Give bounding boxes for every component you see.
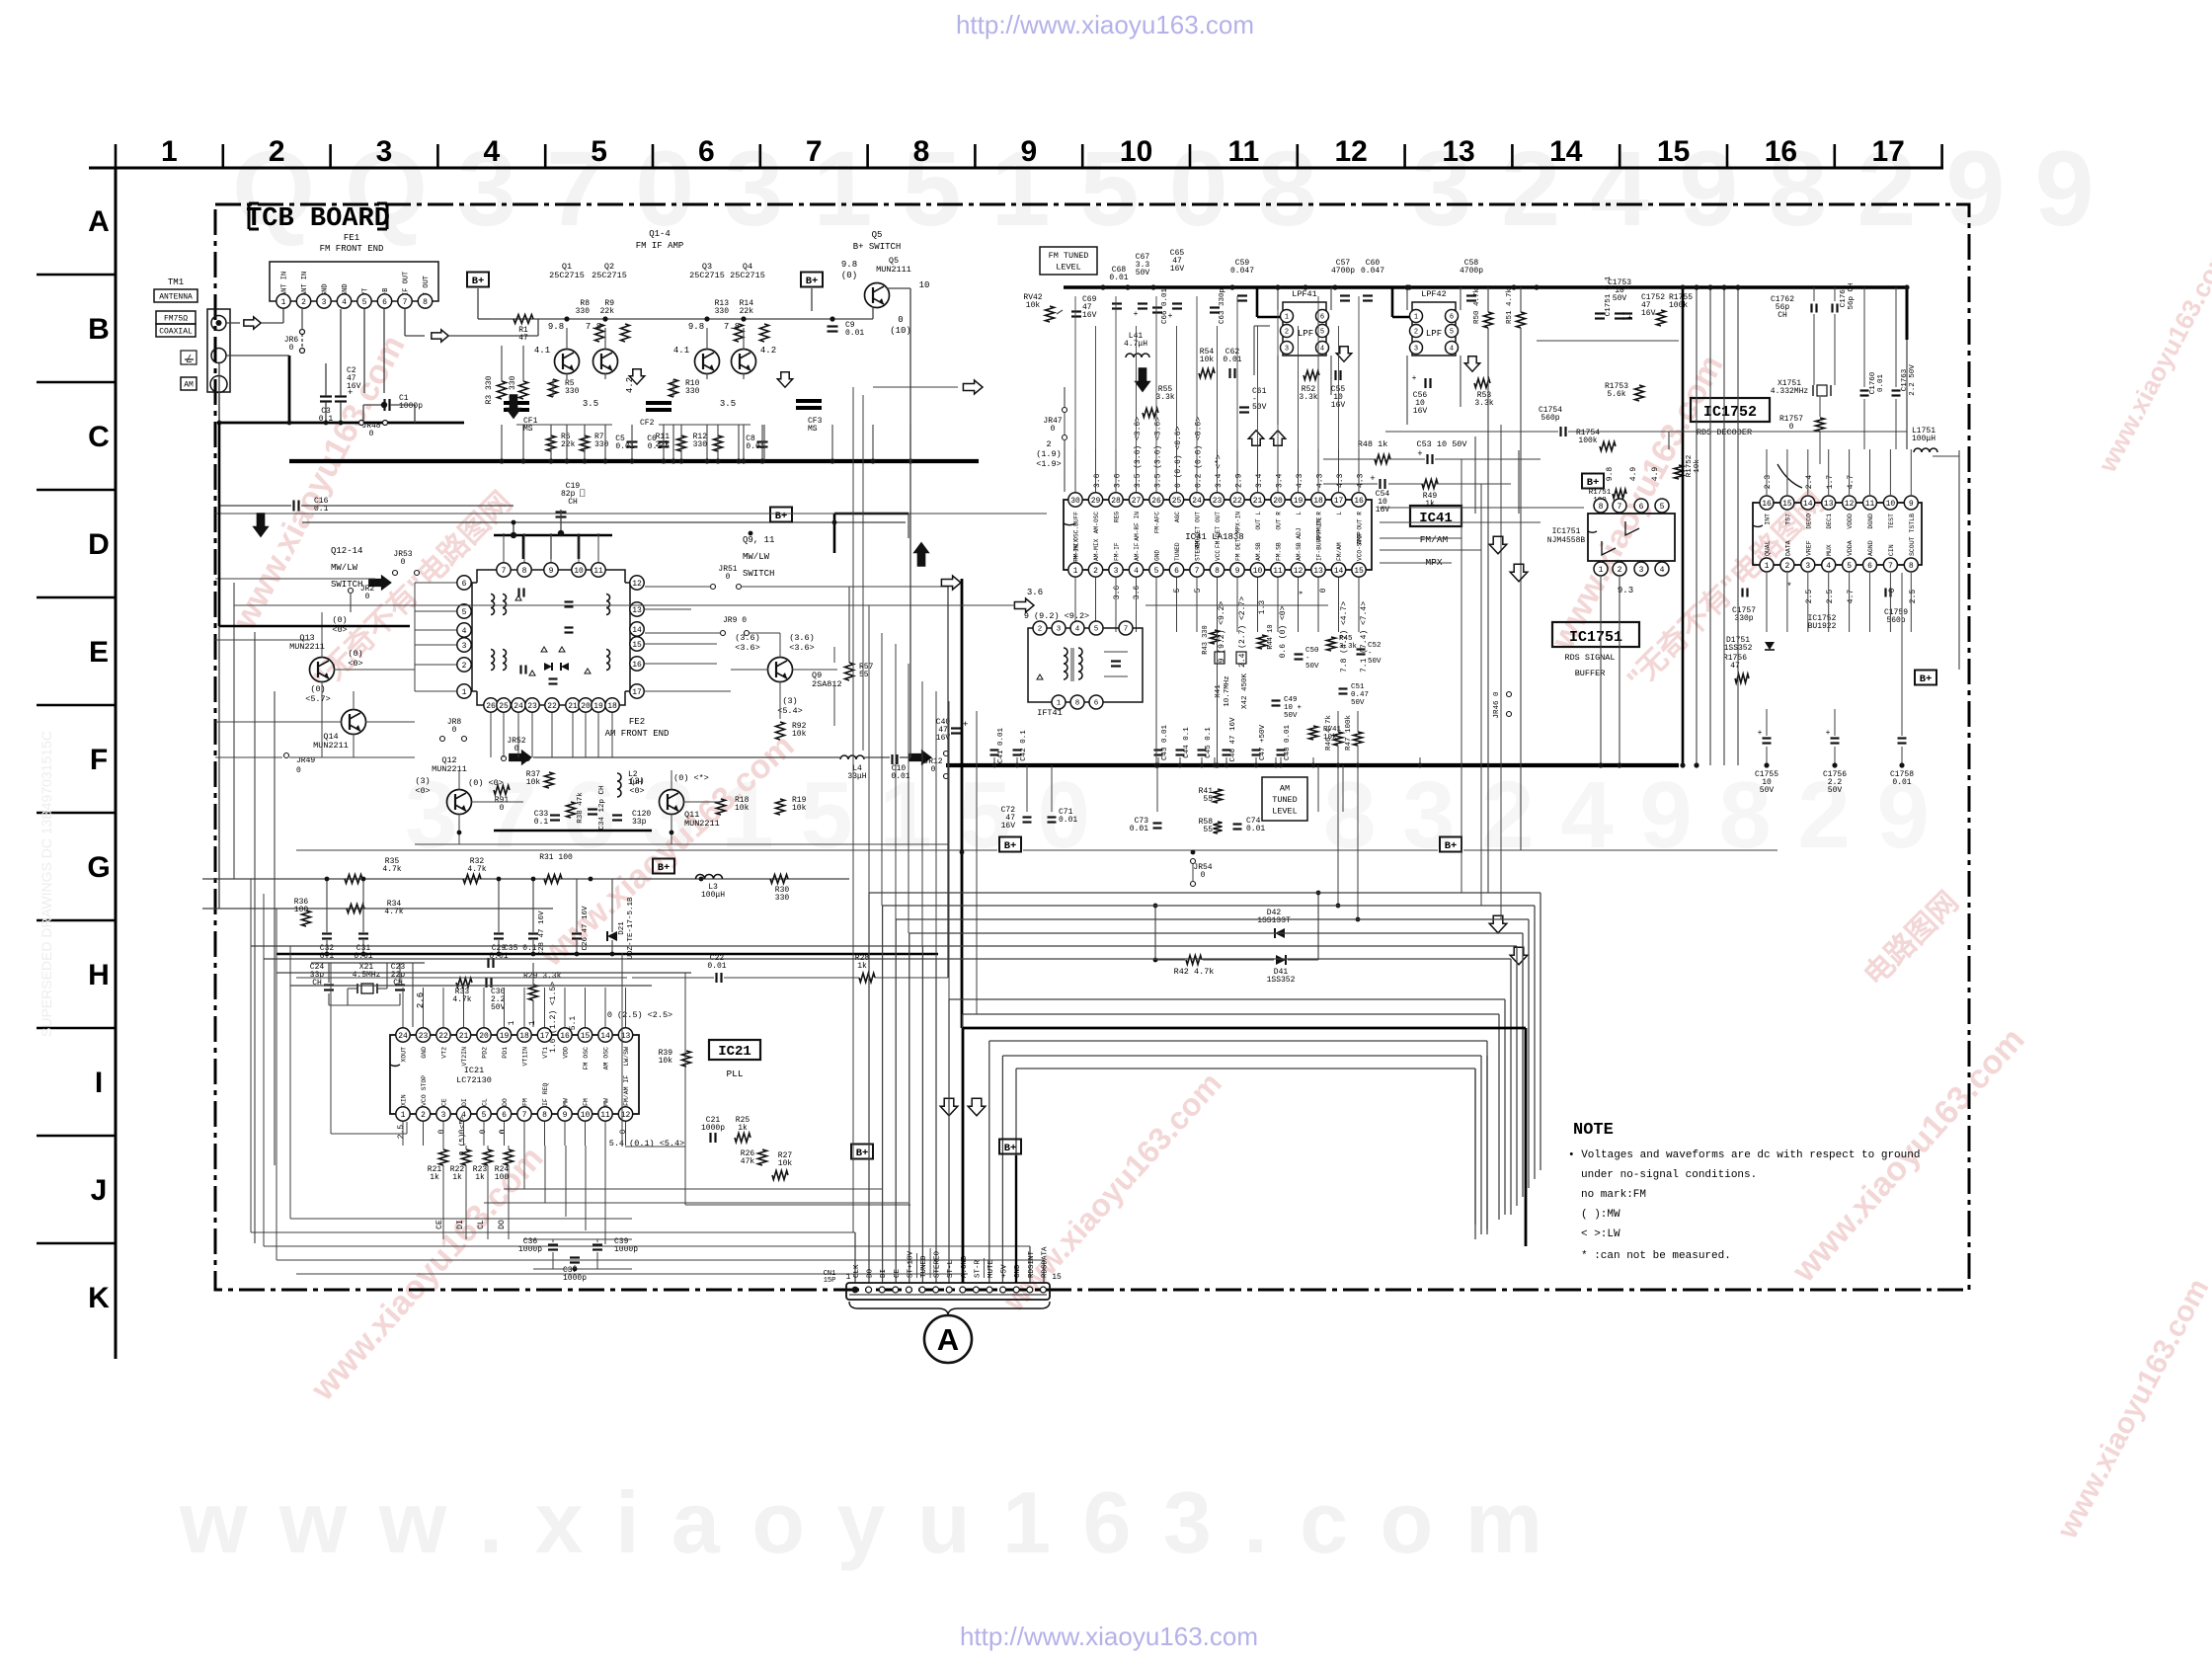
FE2 pin stubs bottom <box>490 713 492 757</box>
svg-text:R47 100k: R47 100k <box>1345 715 1353 752</box>
IC41 pin 8 <box>1210 563 1224 577</box>
svg-text:SWITCH: SWITCH <box>743 569 774 579</box>
svg-text:CH: CH <box>312 979 322 988</box>
svg-text:COAXIAL: COAXIAL <box>159 327 193 336</box>
svg-text:1: 1 <box>508 1020 516 1025</box>
svg-text:3.5: 3.5 <box>720 399 736 409</box>
ruler row tick <box>37 1242 116 1245</box>
capacitor C55 10 16V <box>1334 370 1336 380</box>
svg-text:FM: FM <box>522 1098 529 1106</box>
resistor R10 330 <box>670 379 678 397</box>
svg-text:8: 8 <box>1075 700 1080 708</box>
transistor Q12 <box>447 790 472 815</box>
svg-text:VDD: VDD <box>563 1047 570 1059</box>
capacitor C16 0.1 <box>292 501 294 512</box>
wire vertical 874 <box>862 395 864 751</box>
svg-text:AM FRONT END: AM FRONT END <box>605 729 670 739</box>
svg-text:2: 2 <box>462 662 467 671</box>
IC41 body <box>1064 500 1372 570</box>
antenna connector pin mid <box>211 349 226 363</box>
svg-text:MUN2211: MUN2211 <box>289 642 325 652</box>
svg-text:MS: MS <box>808 425 818 434</box>
svg-text:TCB BOARD: TCB BOARD <box>246 204 390 234</box>
svg-text:5: 5 <box>1320 329 1324 337</box>
svg-text:FM FRONT END: FM FRONT END <box>320 244 384 254</box>
svg-text:1.7: 1.7 <box>1826 475 1835 490</box>
svg-text:VCC: VCC <box>1215 550 1222 561</box>
svg-text:<5.7>: <5.7> <box>305 694 331 704</box>
svg-text:4.7k: 4.7k <box>452 995 471 1004</box>
IC41 pin 1 <box>1068 563 1082 577</box>
wire C19 bus <box>494 534 612 537</box>
open right arrow to IC41 pin1 area <box>1014 598 1034 612</box>
ruler left line <box>115 168 118 1359</box>
svg-text:7: 7 <box>1618 503 1622 512</box>
svg-text:20: 20 <box>581 702 591 711</box>
filled up arrow col8 row D <box>913 543 928 567</box>
svg-text:VCO-STOP: VCO-STOP <box>1357 531 1364 561</box>
svg-text:(3.6): (3.6) <box>789 633 815 643</box>
svg-text:9: 9 <box>1020 135 1037 168</box>
capacitor C21 1000p <box>709 1133 711 1143</box>
svg-text:4: 4 <box>462 627 467 636</box>
inductor L3 100uH <box>696 875 723 879</box>
svg-text:C: C <box>88 421 110 453</box>
IC1752 pointer curve <box>1777 464 1802 488</box>
B+ box RDS right <box>1915 671 1936 685</box>
wire AM out <box>533 756 841 758</box>
resistor R41 55 <box>1214 789 1223 803</box>
svg-text:13: 13 <box>1824 500 1834 509</box>
IC41 pin 5 <box>1149 563 1163 577</box>
wire row E long <box>215 639 310 641</box>
svg-text:AM-RF IN: AM-RF IN <box>1134 512 1141 541</box>
svg-text:Q1-4: Q1-4 <box>649 229 671 239</box>
svg-text:(0): (0) <box>841 271 857 280</box>
svg-text:JR46 0: JR46 0 <box>1493 691 1501 719</box>
svg-text:2.4: 2.4 <box>1805 475 1814 490</box>
svg-text:w w w . x i a o y u 1 6 3 . c: w w w . x i a o y u 1 6 3 . c o m <box>179 1473 1546 1571</box>
svg-text:FM-DET OUT: FM-DET OUT <box>1215 512 1222 548</box>
svg-text:1μH: 1μH <box>628 778 643 787</box>
svg-text:<1.9>: <1.9> <box>1036 459 1062 469</box>
wire rows B right verticals to IC1752 <box>1813 287 1815 301</box>
IC1752 pin 4 <box>1822 558 1836 572</box>
svg-text:ANT IN: ANT IN <box>301 272 309 296</box>
svg-text:IFT41: IFT41 <box>1037 708 1063 718</box>
svg-text:16: 16 <box>560 1032 570 1041</box>
svg-text:C43 0.01: C43 0.01 <box>1161 725 1169 761</box>
capacitor C24 33p CH <box>324 984 334 986</box>
svg-text:22: 22 <box>1232 497 1242 506</box>
svg-text:0.01: 0.01 <box>891 772 909 781</box>
resistor R92 10k <box>776 722 785 740</box>
svg-text:50V: 50V <box>1136 269 1150 277</box>
svg-text:4.332MHz: 4.332MHz <box>1771 387 1809 396</box>
svg-text:560p: 560p <box>1540 414 1559 423</box>
svg-text:FM/AM: FM/AM <box>1336 542 1343 561</box>
svg-text:DO: DO <box>502 1098 509 1106</box>
svg-text:5: 5 <box>462 608 467 617</box>
svg-text:B+: B+ <box>806 276 819 287</box>
resistor R13 330 R14 22k <box>735 324 744 342</box>
svg-text:15: 15 <box>1052 1273 1062 1282</box>
svg-text:0: 0 <box>499 1129 508 1134</box>
diode D41 1SS352 <box>1276 955 1286 965</box>
svg-text:J: J <box>91 1174 108 1207</box>
resistor R27 10k <box>772 1171 788 1180</box>
wire thick antenna bus down-left <box>218 423 221 626</box>
svg-text:4.7k: 4.7k <box>382 865 401 874</box>
B+ box above CN1 <box>999 1140 1021 1154</box>
capacitor C68 0.01 <box>1112 302 1122 304</box>
svg-text:0: 0 <box>289 344 294 353</box>
svg-text:4: 4 <box>342 298 347 307</box>
svg-text:A: A <box>937 1322 959 1357</box>
IC1752 pin 15 <box>1780 496 1794 510</box>
svg-text:R50 4.7k: R50 4.7k <box>1473 288 1481 325</box>
svg-text:VREF: VREF <box>1805 540 1812 556</box>
svg-text:R1751: R1751 <box>1589 489 1612 497</box>
svg-text:0: 0 <box>296 766 301 775</box>
svg-text:AM-MIX: AM-MIX <box>1093 538 1100 561</box>
svg-text:D: D <box>88 528 110 561</box>
capacitor C69 47 16V <box>1071 310 1081 312</box>
svg-text:50V: 50V <box>1351 699 1365 707</box>
capacitor C73 0.01 <box>1153 822 1162 824</box>
svg-text:100k: 100k <box>1578 436 1597 445</box>
svg-text:4.7: 4.7 <box>1847 590 1856 604</box>
svg-text:B+: B+ <box>658 862 671 874</box>
antenna ANTENNA box <box>154 289 197 302</box>
capacitor C40 47 16V <box>951 727 961 729</box>
capacitor C51 0.47 50V <box>1339 687 1348 689</box>
IC21 pin 21 <box>456 1028 470 1042</box>
svg-text:TUNED: TUNED <box>920 1255 928 1278</box>
svg-text:15P: 15P <box>824 1277 836 1285</box>
svg-text:LW/SW: LW/SW <box>623 1047 630 1067</box>
wire IF OUT arrow onward <box>449 335 538 337</box>
svg-text:2: 2 <box>1285 329 1289 337</box>
svg-text:1: 1 <box>1765 562 1770 571</box>
IC41 pin 18 <box>1311 493 1325 507</box>
svg-text:TUNED: TUNED <box>1174 542 1181 561</box>
svg-text:23: 23 <box>1213 497 1223 506</box>
svg-text:CE: CE <box>441 1098 448 1106</box>
svg-text:FE1: FE1 <box>344 233 359 243</box>
antenna ground symbol box <box>181 351 197 364</box>
svg-text:2: 2 <box>1046 439 1051 449</box>
wire crystal net <box>311 962 425 964</box>
svg-text:15: 15 <box>1657 135 1690 168</box>
B+ box G-row <box>653 859 674 874</box>
svg-text:47: 47 <box>518 334 528 343</box>
svg-text:FM: FM <box>583 1098 590 1106</box>
wire IC21 pins 7-11 extended down <box>523 1146 525 1189</box>
transistor Q9 <box>768 658 793 682</box>
svg-text:6: 6 <box>1094 700 1099 708</box>
svg-text:TUNED: TUNED <box>1272 795 1298 805</box>
svg-text:R46 4.7k: R46 4.7k <box>1325 715 1333 752</box>
ruler column tick <box>329 144 332 168</box>
svg-text:STEREO: STEREO <box>934 1250 942 1278</box>
svg-text:2.2 50V: 2.2 50V <box>1909 364 1917 396</box>
capacitor C54 10 16V <box>1379 479 1381 489</box>
svg-text:6: 6 <box>1450 314 1454 322</box>
IC1751 body <box>1588 514 1675 561</box>
capacitor C65 47 16V <box>1172 302 1182 304</box>
resistor R12 330 <box>714 436 723 451</box>
svg-text:L: L <box>1296 512 1303 515</box>
svg-text:C41 0.01: C41 0.01 <box>997 728 1005 764</box>
svg-text:SCOUT: SCOUT <box>1909 536 1916 556</box>
resistor R49 1k <box>1422 480 1438 489</box>
ruler column tick <box>652 144 655 168</box>
arrow FE1 IF OUT <box>432 330 448 342</box>
svg-text:30: 30 <box>1070 497 1080 506</box>
capacitor C32 0.1 <box>322 932 332 934</box>
FE2 internal caps <box>517 589 519 597</box>
capacitor C6 0.1 <box>659 440 670 442</box>
resistor R35 4.7k <box>345 875 362 884</box>
svg-text:FM DET: FM DET <box>1235 538 1242 561</box>
svg-text:6: 6 <box>382 298 387 307</box>
svg-text:X41: X41 <box>1215 684 1223 698</box>
FE2 right pins 12-17 <box>630 576 644 590</box>
IFT41 internal coils <box>1064 648 1067 679</box>
svg-text:50V: 50V <box>1368 658 1382 666</box>
resistor R42 4.7k <box>1186 956 1202 965</box>
capacitor C1752 47 16V <box>1622 312 1632 314</box>
resistor R1751 100 <box>1613 490 1626 499</box>
capacitor C60 0.047 <box>1363 294 1373 296</box>
svg-text:AM-OSC: AM-OSC <box>1093 512 1100 534</box>
svg-text:ANTENNA: ANTENNA <box>159 292 193 301</box>
svg-text:20: 20 <box>1273 497 1283 506</box>
svg-text:MW: MW <box>563 1098 570 1106</box>
svg-text:330: 330 <box>715 307 730 316</box>
svg-text:3.5 (3.6) <3.6>: 3.5 (3.6) <3.6> <box>1134 417 1143 488</box>
svg-text:C45 0.1: C45 0.1 <box>1205 727 1213 758</box>
capacitor C1760 0.01 rot <box>1860 389 1869 391</box>
IC41 pin 20 <box>1271 493 1285 507</box>
FE2 internal coils left <box>491 594 495 615</box>
svg-text:8: 8 <box>913 135 930 168</box>
FE2 pin stubs right <box>645 608 691 610</box>
wire verticals below IC41 bus to C72 row <box>1026 765 1028 812</box>
svg-text:22k: 22k <box>740 307 754 316</box>
wires IF amp verticals <box>501 425 503 461</box>
svg-text:C53 10 50V: C53 10 50V <box>1416 439 1467 449</box>
wire IC41 bottom pins down to bus <box>1155 632 1157 765</box>
svg-text:+5V: +5V <box>1001 1264 1009 1278</box>
wire right bundle x1480-1560 down to staircase <box>1461 459 1462 893</box>
IC1752 pin 5 <box>1843 558 1856 572</box>
svg-text:29: 29 <box>1091 497 1101 506</box>
svg-text:25C2715: 25C2715 <box>592 271 627 280</box>
svg-text:2: 2 <box>1618 566 1622 575</box>
svg-text:0: 0 <box>1319 588 1328 593</box>
open right arrow FE2 pin12 net <box>941 576 961 590</box>
wire IC1752 bottom stubs <box>1766 573 1768 632</box>
svg-text:R42 4.7k: R42 4.7k <box>1174 967 1215 977</box>
FE1 body box <box>270 262 438 301</box>
ruler column tick <box>1297 144 1300 168</box>
svg-text:0: 0 <box>931 765 936 774</box>
svg-text:25: 25 <box>1172 497 1182 506</box>
svg-text:10: 10 <box>581 1111 591 1120</box>
svg-text:4: 4 <box>1320 346 1324 354</box>
svg-text:INT: INT <box>1765 514 1772 525</box>
CN1 connector body <box>846 1283 1050 1300</box>
capacitor C39 1000p <box>592 1243 602 1245</box>
wire R28 C22 net <box>632 977 714 979</box>
svg-text:7: 7 <box>522 1111 527 1120</box>
svg-text:2: 2 <box>269 135 285 168</box>
svg-text:10k: 10k <box>792 730 807 739</box>
IC21 body <box>390 1035 639 1114</box>
svg-text:33μH: 33μH <box>847 772 866 781</box>
svg-text:R45: R45 <box>1339 635 1353 643</box>
capacitor C22 0.01 <box>715 973 717 983</box>
inductor L4 33uH <box>840 755 864 759</box>
svg-text:+: + <box>1826 729 1831 738</box>
wire LPF tops to bus <box>1277 287 1279 310</box>
resistor R7 330 <box>581 436 590 451</box>
svg-text:LPF42: LPF42 <box>1421 289 1447 299</box>
svg-text:9: 9 <box>563 1111 568 1120</box>
FE2 left pins 6-1 <box>457 576 471 590</box>
svg-text:21: 21 <box>1253 497 1263 506</box>
capacitor C42 0.1 rot <box>1013 749 1022 751</box>
svg-text:NJM4558B: NJM4558B <box>1547 536 1586 545</box>
svg-text:26: 26 <box>486 702 496 711</box>
filled down arrow left D-row <box>253 514 268 537</box>
IFT41 triangle <box>1037 674 1043 679</box>
wire R21-24 tops <box>442 1165 444 1239</box>
capacitor C1763 2.2 50V rot <box>1892 389 1901 391</box>
svg-text:9: 9 <box>1235 567 1240 576</box>
FE1 pin 2 <box>296 294 310 308</box>
svg-text:• Voltages and waveforms are d: • Voltages and waveforms are dc with res… <box>1568 1149 1920 1161</box>
connector A circle <box>924 1315 972 1363</box>
svg-text:4: 4 <box>1826 562 1831 571</box>
svg-text:7: 7 <box>806 135 823 168</box>
svg-text:3 2 4 9 8 2 9 9: 3 2 4 9 8 2 9 9 <box>1412 128 2094 248</box>
capacitor C3 0.1 <box>320 395 332 397</box>
svg-text:14: 14 <box>1334 567 1344 576</box>
capacitor C26 47 16V rot <box>572 932 582 934</box>
svg-text:9.8: 9.8 <box>688 322 704 332</box>
capacitors C43-C48 rot row <box>1154 749 1163 751</box>
IC41 title box <box>1410 506 1461 526</box>
svg-text:1: 1 <box>1057 700 1062 708</box>
resistor R45 3.3k <box>1327 637 1336 651</box>
wire G-row verticals <box>326 879 328 932</box>
svg-text:+: + <box>1412 374 1417 383</box>
svg-text:0: 0 <box>1051 425 1056 434</box>
svg-text:330: 330 <box>565 387 580 396</box>
wire JR47 row to IC41 <box>1064 439 1066 492</box>
IC41 pin 7 <box>1190 563 1204 577</box>
svg-text:R48 1k: R48 1k <box>1358 439 1388 449</box>
svg-text:50V: 50V <box>1760 786 1775 795</box>
svg-text:LPF: LPF <box>1426 329 1442 339</box>
svg-text:FM/AM IF: FM/AM IF <box>623 1075 630 1106</box>
wire diode row <box>1155 959 1185 961</box>
svg-text:0.47: 0.47 <box>1351 691 1369 699</box>
svg-text:4.1: 4.1 <box>673 346 689 356</box>
svg-text:330p: 330p <box>1734 614 1753 623</box>
svg-text:R1752: R1752 <box>1686 455 1694 478</box>
open arrows down pair above CN1 <box>940 1098 958 1116</box>
FE2 bottom pins 26-18 <box>484 698 498 712</box>
svg-text:FM TUNED: FM TUNED <box>1049 251 1089 261</box>
CN1 pin 13 <box>1013 1287 1019 1293</box>
wire top bus thick <box>1064 285 1907 288</box>
svg-text:RDSINT: RDSINT <box>1028 1250 1036 1278</box>
B+ box left of IF amp <box>467 273 489 287</box>
svg-text:4.7k: 4.7k <box>467 865 486 874</box>
svg-text:16V: 16V <box>1170 265 1185 274</box>
svg-text:100: 100 <box>294 906 309 914</box>
IC1752 pin 6 <box>1863 558 1877 572</box>
svg-text:B: B <box>88 313 110 346</box>
svg-text:0.01: 0.01 <box>1877 374 1885 393</box>
FE2 pin stubs top <box>503 533 505 562</box>
svg-text:12: 12 <box>632 580 642 589</box>
svg-text:11: 11 <box>593 567 603 576</box>
svg-text:CLK: CLK <box>853 1264 861 1278</box>
svg-text:C28 47 16V: C28 47 16V <box>538 911 546 956</box>
capacitor C1 1000p <box>383 399 385 411</box>
svg-text:E: E <box>89 636 109 669</box>
B+ box right of IF amp <box>801 273 823 287</box>
svg-text:13: 13 <box>1442 135 1474 168</box>
antenna connector pin AM <box>210 376 227 393</box>
open arrow down after Q2 stage <box>629 369 644 384</box>
svg-text:LPF41: LPF41 <box>1292 289 1317 299</box>
svg-text:IC1751: IC1751 <box>1569 629 1622 646</box>
capacitor C49 10 50V <box>1272 699 1281 701</box>
svg-text:25: 25 <box>499 702 509 711</box>
resistor R6 22k <box>547 436 556 451</box>
resistor R39 10k <box>682 1051 691 1067</box>
resistor R11 22k <box>677 436 686 451</box>
svg-text:+: + <box>1417 449 1422 459</box>
ruler column tick <box>1081 144 1084 168</box>
CN1 pin 15 <box>1040 1287 1046 1293</box>
svg-text:IF OUT: IF OUT <box>403 272 411 296</box>
svg-text:560p: 560p <box>1886 616 1905 625</box>
svg-text:3.3k: 3.3k <box>1155 393 1174 402</box>
IC41 pin 6 <box>1169 563 1183 577</box>
svg-text:NOTE: NOTE <box>1573 1121 1614 1140</box>
svg-text:3: 3 <box>322 298 327 307</box>
wire L1751 to B+ <box>1933 455 1959 457</box>
IC21 pin 2 <box>416 1107 430 1121</box>
svg-text:(0) <*>: (0) <*> <box>673 773 709 783</box>
svg-text:OUT R: OUT R <box>1276 512 1283 530</box>
resistor R18 10k <box>717 799 726 815</box>
svg-text:MW: MW <box>603 1098 610 1106</box>
wire R48 C53 row extended <box>1474 436 1476 514</box>
svg-text:VT2: VT2 <box>441 1047 448 1059</box>
resistor R1753 5.6k <box>1635 385 1644 401</box>
CN1 underbrace <box>849 1302 1050 1314</box>
IC41 pin 13 <box>1311 563 1325 577</box>
FE1 pin 5 <box>357 294 371 308</box>
